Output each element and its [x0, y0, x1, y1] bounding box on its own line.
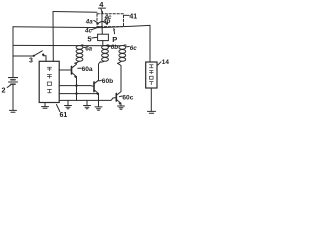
coil 40b (middle) — [100, 45, 109, 62]
wire box-to-60b-emitter line y=93.6 — [59, 93, 98, 95]
wire 60b collector up to coil2 bottom — [99, 62, 101, 79]
svg-text:5: 5 — [87, 35, 91, 44]
wire long horizontal y~27 from left rail to right rail — [13, 25, 150, 27]
svg-text:41: 41 — [129, 14, 137, 21]
wire 60b emitter to ground — [98, 94, 100, 107]
label 2 leader — [7, 85, 11, 88]
label 6b leader — [109, 45, 111, 47]
wire 60a collector to coil1 bottom — [75, 62, 77, 64]
label 4 arrow — [99, 8, 106, 14]
ground stub on bottom line x=68 — [67, 100, 69, 105]
label 6c leader — [127, 46, 130, 48]
relay armature (pole) — [101, 15, 103, 25]
wire switch feed y=56 — [13, 55, 34, 57]
svg-text:6a: 6a — [85, 45, 92, 52]
relay dashed box 41 — [97, 14, 124, 27]
svg-text:6b: 6b — [111, 44, 118, 51]
wire switch to box 61 — [43, 56, 46, 62]
svg-text:4a: 4a — [85, 18, 93, 25]
svg-text:P: P — [112, 35, 117, 44]
transistor 60c — [116, 90, 121, 104]
junction dots on emitter drop — [75, 84, 77, 86]
wire left rail x=13 — [12, 27, 14, 78]
label 61 leader — [57, 105, 60, 112]
wire coil 5 to bus B — [102, 41, 104, 46]
label 41 leader — [124, 14, 129, 16]
relay coil 5 box — [98, 34, 109, 40]
P arrow — [113, 29, 115, 34]
svg-text:4b: 4b — [102, 18, 110, 25]
svg-text:60b: 60b — [102, 78, 113, 85]
ground below battery — [10, 110, 17, 112]
wire box bottom line y=100.4 to 60c base — [59, 98, 116, 101]
label 5 leader — [92, 36, 98, 39]
svg-text:4c: 4c — [84, 28, 92, 35]
label 14 leader — [158, 62, 161, 65]
transistor 60a — [59, 63, 76, 78]
svg-text:2: 2 — [2, 86, 6, 95]
wire battery bottom lead — [12, 84, 14, 110]
battery 2 — [9, 78, 18, 85]
svg-text:61: 61 — [60, 112, 68, 119]
wire box to 60b base y=85.6 — [59, 85, 94, 88]
ground below box 61 — [44, 103, 46, 107]
svg-text:6c: 6c — [130, 45, 137, 52]
wire 60c collector up to coil3 bottom — [118, 63, 121, 90]
relay contact right dot — [106, 22, 108, 24]
wire relay pole down to coil 5 — [101, 24, 103, 34]
svg-text:14: 14 — [162, 59, 170, 66]
wire 60a emitter down x=76.5 — [76, 77, 78, 101]
ground under 60c — [118, 106, 125, 109]
wire 60c emitter to ground — [120, 103, 122, 106]
label 6a leader — [84, 46, 86, 48]
box 14 inner vertical glyphs — [150, 65, 154, 85]
wire top bus y=11.5 from x53 to relay box — [53, 11, 97, 14]
ground stub on bottom line x=87 — [86, 100, 88, 105]
transistor 60b — [94, 79, 99, 95]
svg-text:60c: 60c — [122, 94, 133, 101]
coil 40c (right) — [118, 45, 127, 63]
relay contact arms — [98, 21, 107, 23]
switch 3 — [33, 51, 45, 57]
box 61 (oscillator) — [39, 61, 59, 102]
ground below box 14 — [148, 111, 156, 113]
label 4a leader — [94, 20, 97, 22]
wire right rail x=150 down to box 14 — [149, 25, 151, 62]
box 61 inner vertical text glyphs — [47, 67, 51, 93]
ground under 60b — [95, 107, 102, 110]
relay contact left dot — [96, 22, 98, 24]
wire bus B y=45.5 from left rail to coil3 — [13, 44, 121, 46]
wire vertical rail x=53 from top bus to box 61 — [52, 12, 54, 62]
coil 40a (left) — [75, 45, 84, 63]
box 14 — [146, 62, 157, 88]
svg-text:3: 3 — [29, 57, 33, 64]
svg-text:60a: 60a — [82, 66, 93, 73]
label 60b leader — [99, 79, 102, 82]
label 60a leader — [78, 67, 82, 69]
wire box 14 to ground — [150, 88, 152, 111]
label 4c lower leader — [92, 27, 100, 30]
label 60c leader — [119, 95, 122, 98]
